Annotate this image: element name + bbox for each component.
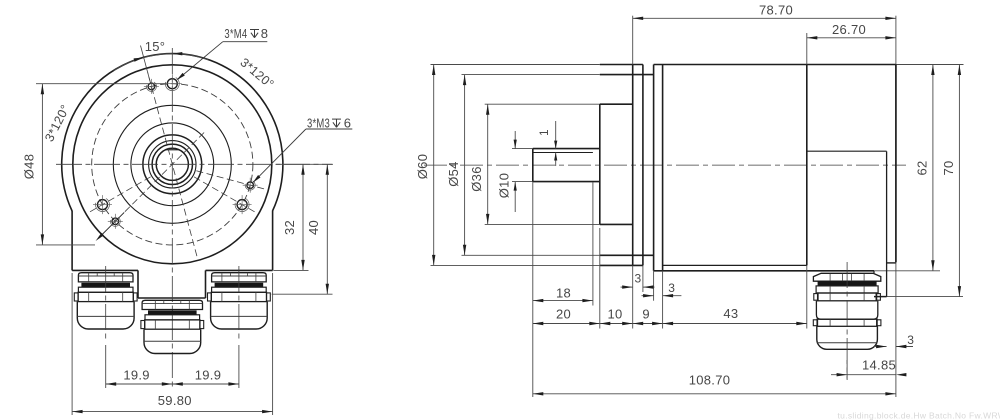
svg-text:tu.sliding.block.de.Hw Batch.: tu.sliding.block.de.Hw Batch.No Fw.WRWN [838, 411, 1000, 420]
svg-text:108.70: 108.70 [689, 373, 731, 388]
svg-text:32: 32 [282, 220, 297, 235]
svg-text:3: 3 [668, 281, 675, 295]
svg-text:Ø54: Ø54 [446, 161, 461, 186]
svg-text:26.70: 26.70 [832, 22, 866, 37]
svg-text:9: 9 [642, 307, 650, 322]
svg-text:Ø36: Ø36 [469, 166, 484, 191]
svg-text:3*M3: 3*M3 [307, 116, 330, 131]
svg-text:40: 40 [306, 220, 321, 235]
svg-text:18: 18 [556, 285, 571, 300]
svg-text:59.80: 59.80 [158, 393, 192, 408]
svg-text:8: 8 [261, 26, 269, 41]
svg-text:10: 10 [607, 307, 622, 322]
svg-text:3: 3 [635, 271, 642, 285]
svg-text:Ø10: Ø10 [497, 173, 512, 198]
svg-text:3*M4: 3*M4 [224, 26, 247, 41]
svg-text:20: 20 [556, 306, 571, 321]
svg-text:Ø60: Ø60 [415, 154, 430, 179]
svg-text:19.9: 19.9 [195, 368, 222, 383]
svg-text:19.9: 19.9 [123, 368, 150, 383]
svg-text:70: 70 [941, 160, 956, 175]
svg-text:62: 62 [914, 160, 929, 175]
svg-text:Ø48: Ø48 [22, 154, 37, 179]
svg-text:6: 6 [344, 116, 352, 131]
svg-text:3: 3 [907, 333, 914, 347]
svg-text:1: 1 [539, 129, 551, 136]
svg-text:78.70: 78.70 [759, 3, 793, 18]
svg-text:43: 43 [723, 306, 738, 321]
svg-text:15°: 15° [145, 39, 166, 54]
svg-text:14.85: 14.85 [862, 357, 896, 372]
